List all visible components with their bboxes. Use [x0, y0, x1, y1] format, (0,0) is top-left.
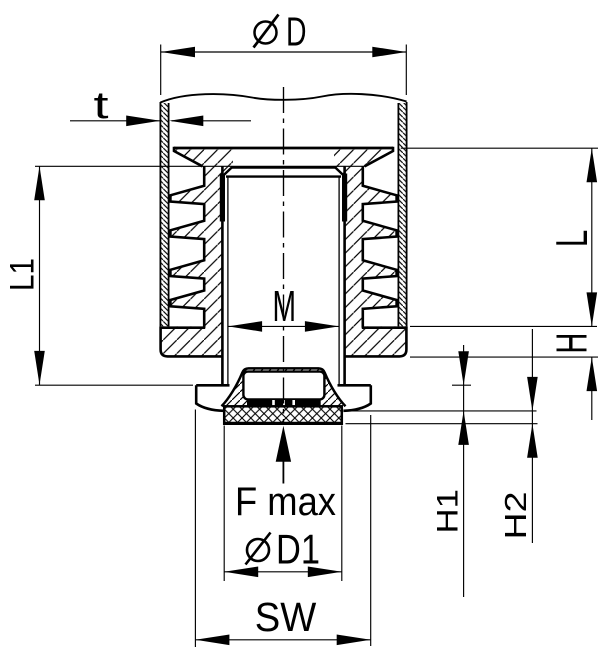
- tube wall hatch left: [160, 103, 168, 326]
- insert fin body hatch right: [345, 166, 397, 327]
- insert bottom collar hatch left: [161, 326, 223, 356]
- svg-text:H: H: [548, 333, 597, 354]
- dim H line below: [591, 357, 593, 420]
- svg-text:SW: SW: [255, 594, 317, 640]
- dim t line right: [172, 120, 252, 122]
- dim L tube-end extension: [410, 325, 597, 327]
- cup top edge: [232, 166, 336, 169]
- insert fin body hatch left: [170, 166, 222, 327]
- svg-text:t: t: [94, 85, 110, 127]
- foot left rim: [196, 385, 223, 411]
- collar outline right: [345, 326, 407, 356]
- fins outline right: [363, 166, 397, 327]
- svg-text:F max: F max: [235, 480, 336, 524]
- insert flange hatch right: [334, 148, 393, 166]
- dim H2 rim extension: [344, 410, 536, 412]
- bore thread line left: [227, 177, 229, 385]
- centerline: [283, 87, 285, 424]
- bore top edge: [226, 175, 341, 177]
- label OD1: [247, 539, 269, 561]
- foot top edge left: [196, 384, 229, 387]
- chamfer left: [223, 167, 232, 176]
- F max arrow: [276, 426, 291, 462]
- chamfer right: [335, 167, 344, 176]
- dim M line: [228, 325, 339, 327]
- foot right rim: [343, 385, 370, 411]
- dim L1 line: [39, 166, 41, 385]
- foot dome outline: [222, 368, 346, 406]
- insert bottom collar hatch right: [345, 326, 407, 356]
- collar outline left: [161, 326, 223, 356]
- svg-text:D1: D1: [276, 526, 320, 573]
- insert flange top edge: [174, 147, 393, 150]
- svg-text:H1: H1: [432, 489, 465, 534]
- tube wall lines right: [406, 102, 408, 326]
- foot dome hatch: [222, 368, 346, 406]
- flange left edge: [174, 147, 202, 167]
- foot neck band: [247, 399, 321, 406]
- insert flange hatch left: [174, 148, 233, 166]
- svg-text:M: M: [273, 282, 297, 331]
- foot cavity: [243, 372, 324, 400]
- cup chamfer sliver right: [335, 166, 345, 176]
- flange right edge: [365, 147, 393, 167]
- dim L1 bottom extension: [35, 384, 193, 386]
- pad bottom edge: [223, 422, 343, 425]
- cup chamfer sliver left: [222, 166, 232, 176]
- dim OD1 extensions: [223, 426, 225, 582]
- dim t line left: [70, 120, 160, 122]
- tube wall lines left: [159, 102, 161, 326]
- dim OD extension lines: [160, 45, 162, 96]
- bore thread line right: [338, 177, 340, 385]
- dim L line: [591, 148, 593, 326]
- svg-text:L1: L1: [4, 258, 42, 291]
- fins outline left: [170, 166, 204, 327]
- dim H1 tick: [452, 384, 471, 386]
- rubber pad crosshatch: [224, 406, 342, 423]
- dim H collar-bottom extension: [410, 356, 598, 358]
- svg-text:L: L: [548, 230, 597, 248]
- dim SW line: [195, 639, 370, 641]
- tube wall hatch right: [398, 103, 406, 326]
- dim OD1 line: [224, 571, 342, 573]
- bush outer wall right: [343, 166, 346, 385]
- dim H1 line: [463, 345, 465, 597]
- dim OD line: [161, 51, 406, 53]
- svg-text:H2: H2: [498, 492, 533, 540]
- foot top edge right: [338, 384, 371, 387]
- dim SW extensions: [194, 410, 196, 648]
- dim H2 pad-bottom extension: [346, 423, 538, 425]
- bush outer wall left: [221, 166, 224, 385]
- dim H2 line: [531, 329, 533, 543]
- label OD: [255, 22, 277, 44]
- tube break wavy line: [160, 94, 406, 103]
- flange underside thin line: [35, 165, 366, 167]
- svg-text:D: D: [286, 9, 307, 55]
- dim L top extension: [401, 147, 598, 149]
